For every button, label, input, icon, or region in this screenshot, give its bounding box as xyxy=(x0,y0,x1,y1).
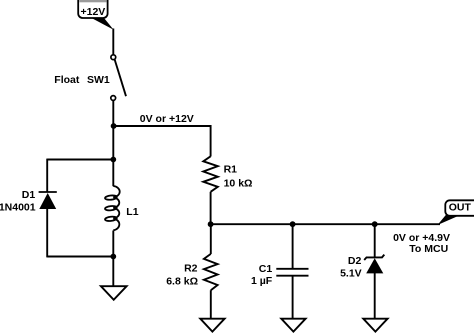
svg-text:R1: R1 xyxy=(224,163,238,175)
wire node to left ground xyxy=(112,257,114,287)
wire D2 anode to ground xyxy=(374,273,376,319)
svg-text:D2: D2 xyxy=(348,255,362,267)
svg-text:L1: L1 xyxy=(126,206,138,218)
wire R2 bottom to ground xyxy=(210,290,212,319)
wire C1 bottom plate to ground xyxy=(292,276,294,319)
node junction C1 xyxy=(290,221,296,227)
capacitor C1 xyxy=(276,269,308,276)
wire node to L1 top xyxy=(112,160,114,187)
zener diode D2 xyxy=(364,255,384,274)
resistor R2 xyxy=(204,254,218,290)
svg-text:OUT: OUT xyxy=(449,202,472,214)
node junction divider xyxy=(208,221,214,227)
node junction D2 xyxy=(372,221,378,227)
svg-text:0V or +12V: 0V or +12V xyxy=(140,113,194,125)
node junction 0V or +12V xyxy=(111,123,117,129)
svg-text:R2: R2 xyxy=(184,262,198,274)
ground symbol (D2) xyxy=(363,319,387,332)
wire D1 anode branch upper xyxy=(46,159,48,192)
resistor R1 xyxy=(203,156,218,192)
svg-text:SW1: SW1 xyxy=(87,74,110,86)
wire node down to D1/L1 junction xyxy=(112,126,114,160)
node junction at bottom of L1 xyxy=(110,254,116,260)
wire L1 bottom to node xyxy=(112,231,114,258)
svg-text:C1: C1 xyxy=(259,263,273,275)
wire top of D1 loop xyxy=(47,159,113,161)
wire bottom of D1 loop xyxy=(47,256,113,258)
svg-text:10 kΩ: 10 kΩ xyxy=(224,178,253,190)
ground symbol (R2) xyxy=(200,319,224,332)
flag pointer (bus to OUT) xyxy=(438,215,458,225)
svg-text:D1: D1 xyxy=(22,189,36,201)
diode D1 (cathode bar + triangle) xyxy=(39,192,57,209)
wire R1 bottom to output bus xyxy=(210,192,212,224)
output bus wire xyxy=(211,223,440,225)
supply flag +12V xyxy=(78,0,107,18)
wire bus to C1 top plate xyxy=(292,224,294,268)
wire switch bottom to node xyxy=(112,100,114,127)
svg-text:Float: Float xyxy=(54,74,80,86)
ground symbol (C1) xyxy=(281,319,305,332)
wire bus to R2 top xyxy=(210,224,212,254)
ground symbol (left) xyxy=(101,286,127,300)
output flag OUT xyxy=(445,200,474,216)
wire node to R1 top xyxy=(114,126,211,157)
svg-text:6.8 kΩ: 6.8 kΩ xyxy=(166,275,198,287)
wire bus to D2 cathode xyxy=(374,224,376,257)
switch SW1 xyxy=(111,55,126,101)
svg-text:1N4001: 1N4001 xyxy=(0,201,36,213)
svg-text:+12V: +12V xyxy=(80,6,105,18)
wire +12V flag to switch top xyxy=(112,29,114,56)
wire D1 branch lower xyxy=(46,208,48,257)
node junction at L1 top xyxy=(110,157,116,163)
svg-text:1 µF: 1 µF xyxy=(251,275,273,287)
svg-text:5.1V: 5.1V xyxy=(340,267,362,279)
svg-text:To MCU: To MCU xyxy=(409,243,448,255)
inductor L1 coil xyxy=(105,186,120,230)
flag pointer (+12V to wire) xyxy=(92,18,114,30)
